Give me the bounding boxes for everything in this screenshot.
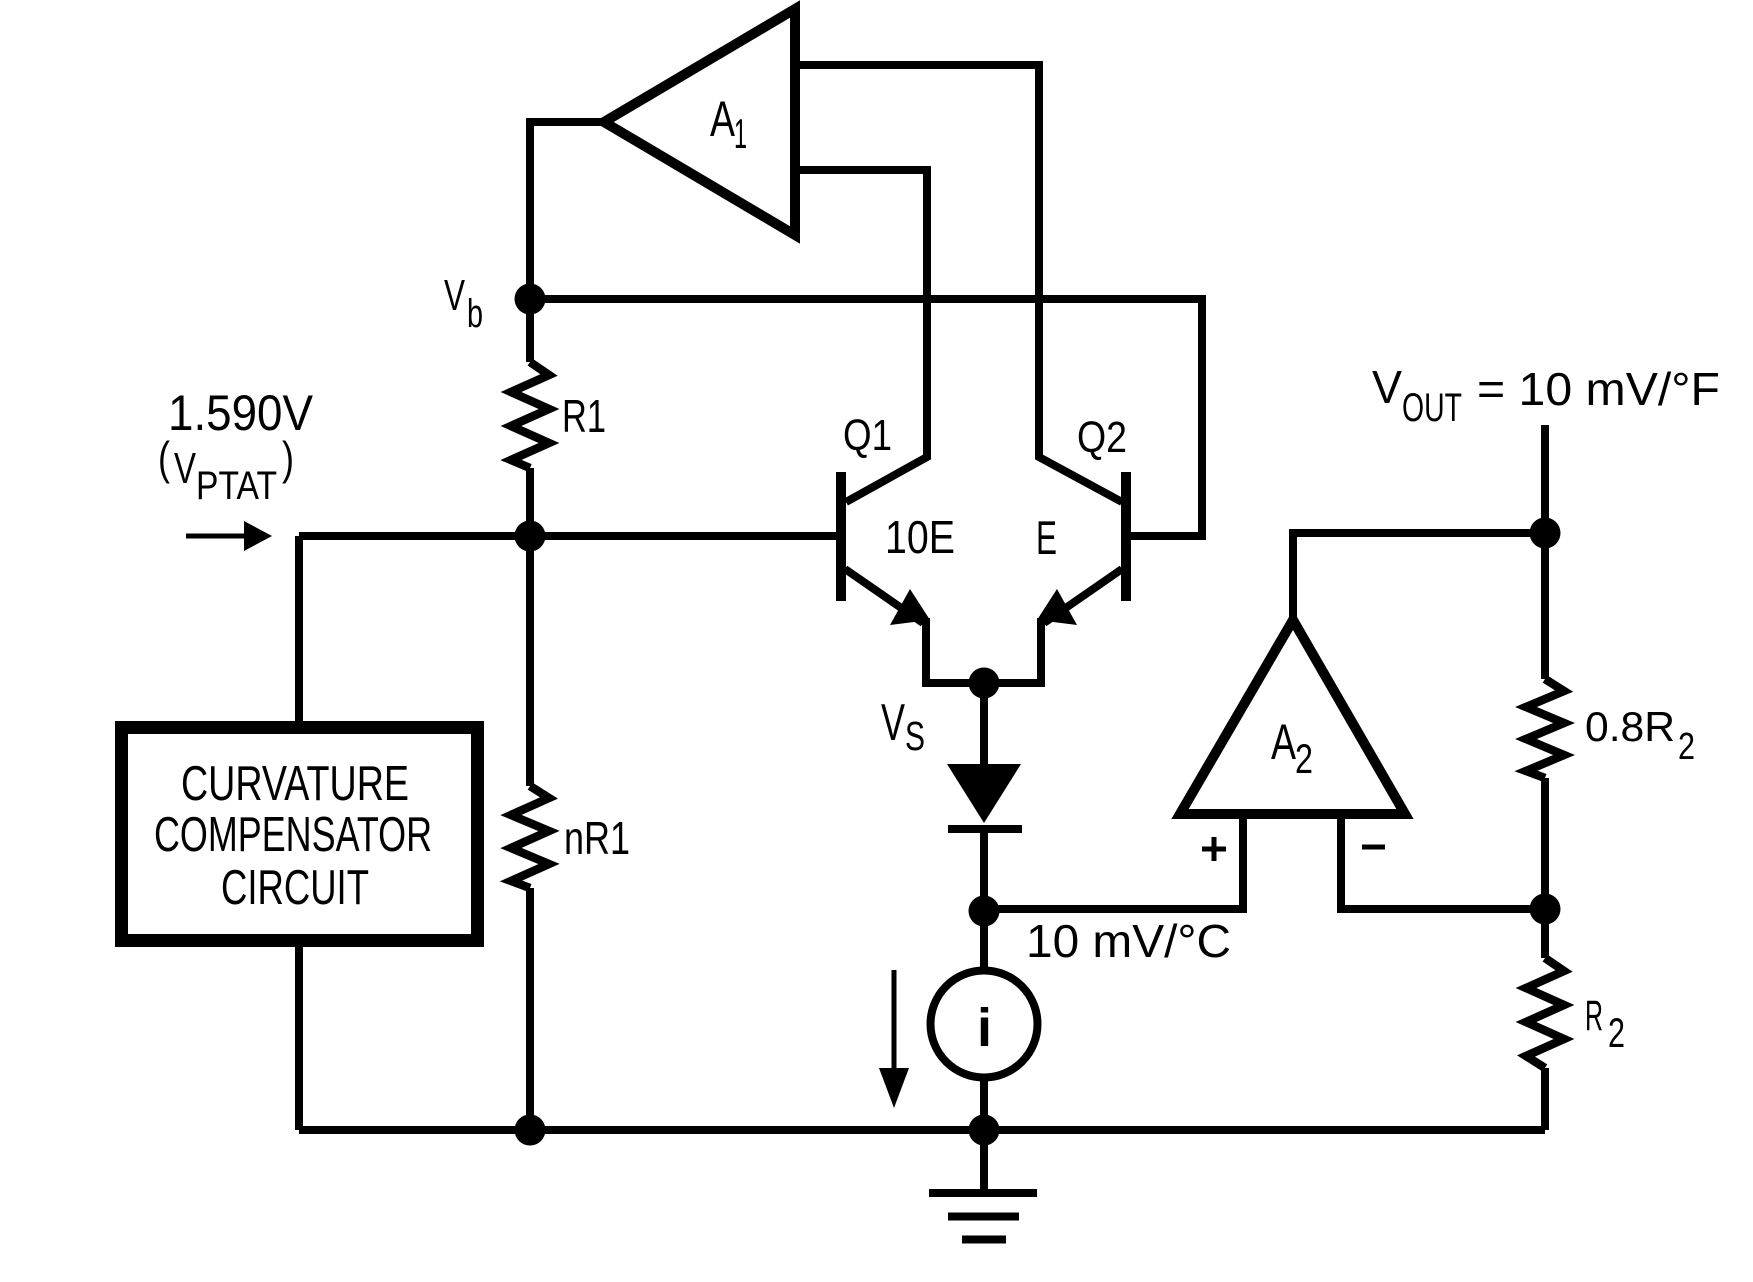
node VOUT junction xyxy=(1530,518,1561,549)
svg-text:V: V xyxy=(881,694,905,752)
svg-text:R: R xyxy=(1585,992,1603,1040)
resistor nR1 xyxy=(511,786,549,888)
node 10mV/C junction xyxy=(969,896,1000,927)
A2 plus label xyxy=(1202,837,1226,861)
wire VPTAT horizontal to Q1 base xyxy=(299,532,836,540)
svg-text:OUT: OUT xyxy=(1402,386,1462,430)
svg-text:V: V xyxy=(174,444,196,493)
svg-text:): ) xyxy=(282,432,294,484)
transistor Q1 base bar xyxy=(836,472,846,601)
wire A1 lower right to Q1 collector xyxy=(795,170,927,502)
svg-text:A: A xyxy=(1271,714,1296,770)
svg-text:0.8R: 0.8R xyxy=(1585,703,1675,750)
wire node to A2 plus input xyxy=(984,814,1243,909)
resistor R2 xyxy=(1526,958,1564,1068)
wire VPTAT down to nR1 xyxy=(526,536,534,786)
transistor Q2 emitter xyxy=(1044,569,1122,623)
wire R2 to ground rail xyxy=(1541,1068,1549,1130)
svg-text:(: ( xyxy=(158,432,171,484)
wire left branch down to curvature box xyxy=(295,536,303,721)
svg-text:V: V xyxy=(444,271,465,320)
wire 0.8R2 to node xyxy=(1541,778,1549,958)
svg-text:R1: R1 xyxy=(562,390,606,442)
svg-text:S: S xyxy=(905,713,925,759)
svg-text:PTAT: PTAT xyxy=(196,464,277,508)
ground rail wire xyxy=(299,1126,1545,1134)
transistor Q2 base bar xyxy=(1121,472,1131,601)
svg-text:10E: 10E xyxy=(885,511,955,563)
A2 minus label xyxy=(1362,845,1385,850)
wire A1 input from apex down to node Vb xyxy=(530,122,604,299)
curvature compensator circuit box xyxy=(122,728,478,941)
node ground junction xyxy=(969,1115,1000,1146)
svg-text:A: A xyxy=(710,91,735,147)
wire R1 to node VPTAT xyxy=(526,468,534,536)
wire curvature box bottom to ground rail xyxy=(295,947,303,1130)
svg-text:2: 2 xyxy=(1608,1009,1625,1056)
ground xyxy=(980,1130,988,1193)
node feedback junction xyxy=(1530,894,1561,925)
wire VS to diode xyxy=(980,683,988,765)
svg-text:CIRCUIT: CIRCUIT xyxy=(221,861,369,915)
svg-text:V: V xyxy=(1372,361,1402,413)
resistor R1 xyxy=(511,362,549,468)
wire A2 minus input to node at R2 xyxy=(1341,814,1545,909)
svg-text:= 10 mV/°F: = 10 mV/°F xyxy=(1477,363,1720,415)
wire current source to ground rail xyxy=(980,1078,988,1130)
wire VOUT rail down xyxy=(1541,425,1549,679)
svg-text:2: 2 xyxy=(1678,726,1695,768)
transistor Q1 emitter xyxy=(845,569,923,623)
current source i xyxy=(931,971,1038,1078)
svg-text:E: E xyxy=(1036,511,1057,564)
current direction arrow xyxy=(892,970,897,1072)
wire node to current source xyxy=(980,911,988,970)
input arrow xyxy=(186,534,248,539)
svg-text:1: 1 xyxy=(734,110,747,157)
wire Vb down to R1 xyxy=(526,299,534,362)
svg-text:Q2: Q2 xyxy=(1077,413,1127,462)
node nR1 ground junction xyxy=(515,1115,546,1146)
svg-text:10 mV/°C: 10 mV/°C xyxy=(1026,915,1231,967)
wire A2 output up to VOUT rail xyxy=(1293,533,1545,620)
svg-text:CURVATURE: CURVATURE xyxy=(181,757,409,811)
resistor 0.8R2 xyxy=(1526,679,1564,778)
wire Vb to Q2 base xyxy=(530,299,1202,536)
op-amp A2 xyxy=(1180,620,1405,814)
svg-text:Q1: Q1 xyxy=(843,411,892,460)
svg-text:b: b xyxy=(467,292,483,336)
wire A1 upper right to Q2 collector xyxy=(795,65,1122,502)
svg-text:i: i xyxy=(977,998,992,1058)
node VS xyxy=(969,668,1000,699)
node VPTAT junction xyxy=(515,521,546,552)
diode D1 xyxy=(947,764,1021,823)
svg-text:COMPENSATOR: COMPENSATOR xyxy=(154,808,432,862)
wire nR1 to ground rail xyxy=(526,888,534,1130)
svg-text:nR1: nR1 xyxy=(564,812,630,864)
svg-text:2: 2 xyxy=(1295,735,1313,782)
op-amp A1 xyxy=(604,9,795,235)
node Vb xyxy=(515,284,546,315)
